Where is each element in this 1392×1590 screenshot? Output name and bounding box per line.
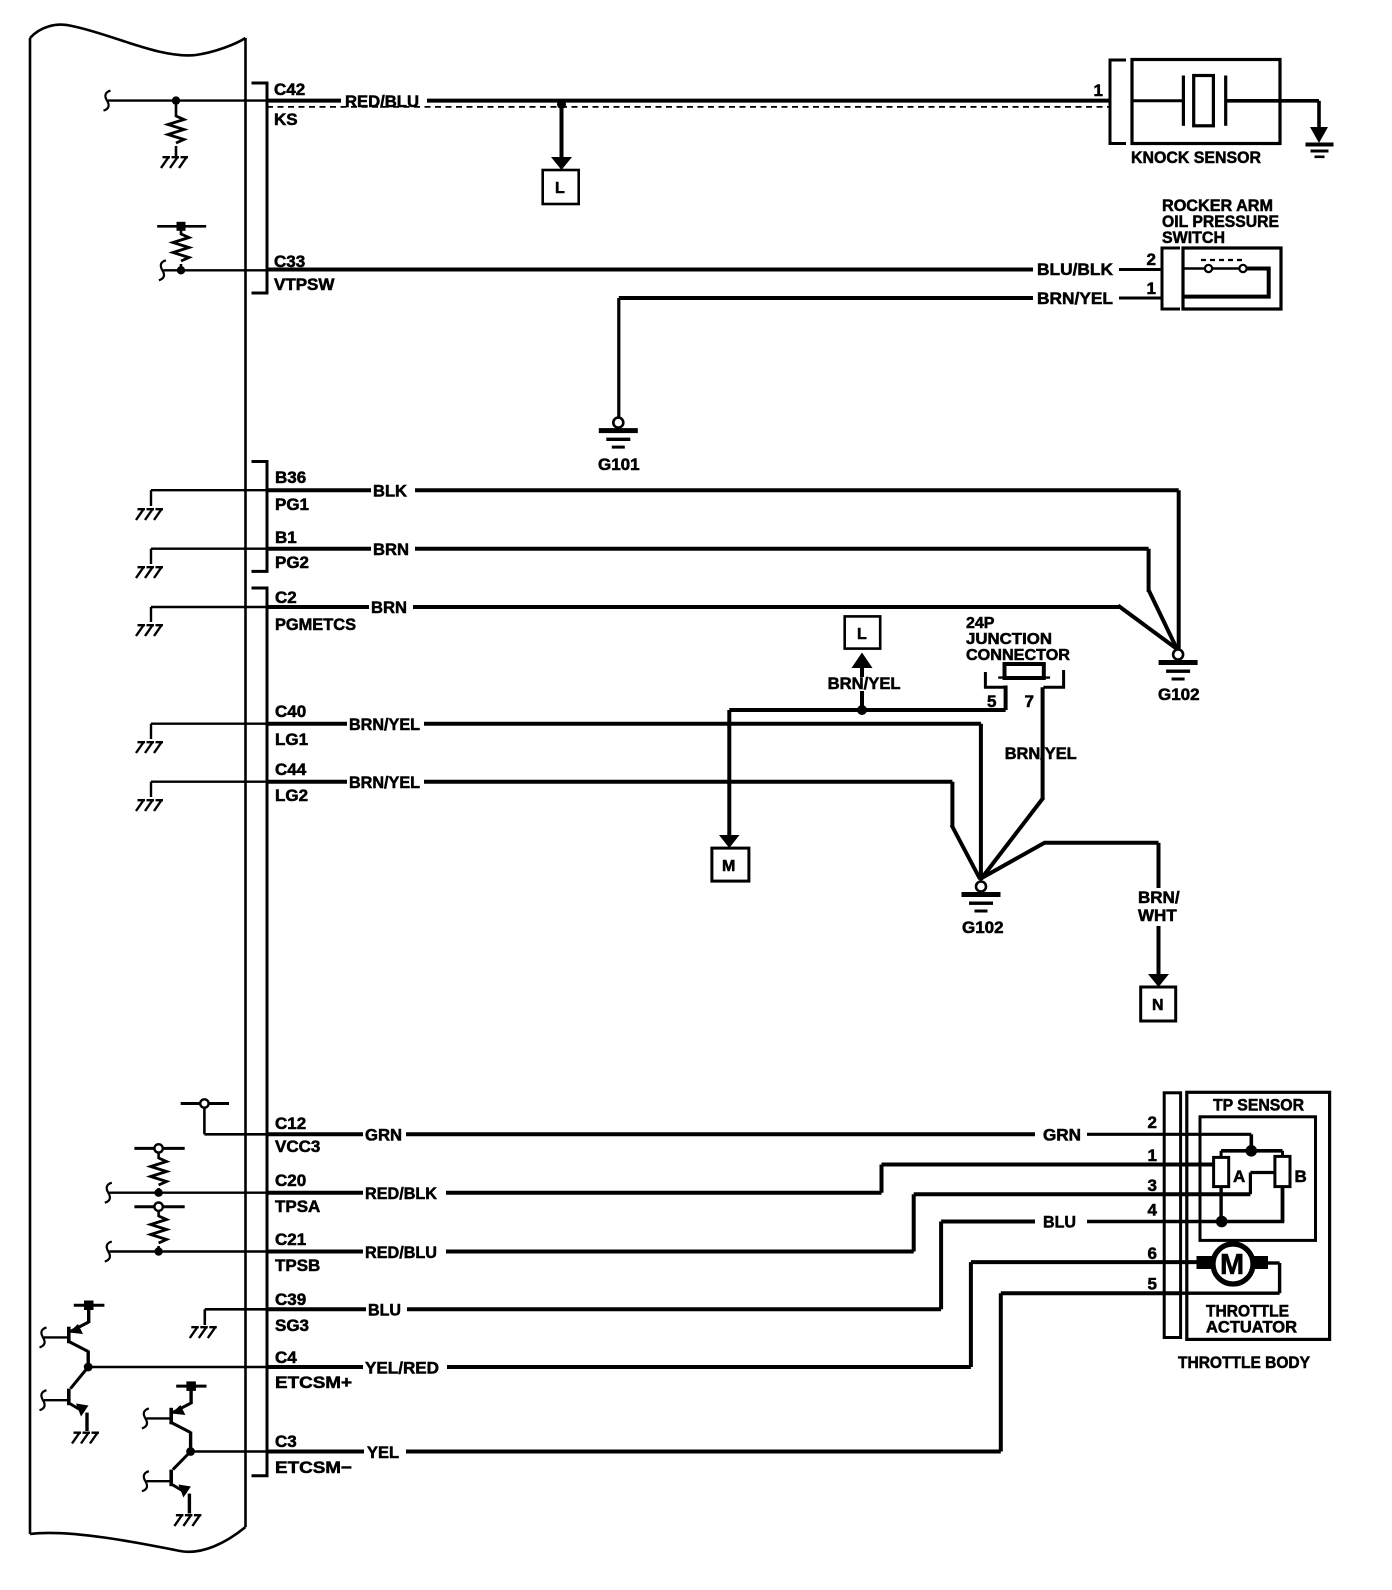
svg-text:L: L [857,626,867,643]
svg-text:LG1: LG1 [275,730,308,749]
svg-text:BRN/YEL: BRN/YEL [828,674,901,693]
svg-text:SWITCH: SWITCH [1162,228,1225,247]
svg-text:2: 2 [1147,250,1156,269]
svg-text:GRN: GRN [365,1126,402,1145]
svg-text:BRN: BRN [371,598,407,617]
svg-text:2: 2 [1148,1113,1157,1132]
svg-text:ETCSM−: ETCSM− [275,1458,352,1477]
svg-text:B1: B1 [275,528,297,547]
svg-text:BRN/YEL: BRN/YEL [349,715,420,734]
svg-text:CONNECTOR: CONNECTOR [966,647,1070,664]
svg-text:4: 4 [1148,1201,1158,1220]
svg-text:G102: G102 [962,918,1004,937]
svg-text:VTPSW: VTPSW [274,275,335,294]
svg-text:RED/BLU: RED/BLU [365,1243,437,1262]
svg-text:C39: C39 [275,1290,306,1309]
svg-text:B: B [1295,1167,1307,1186]
svg-text:YEL: YEL [367,1443,399,1462]
svg-text:RED/BLK: RED/BLK [365,1184,438,1203]
svg-text:C4: C4 [275,1348,297,1367]
svg-text:G101: G101 [598,455,640,474]
svg-text:TPSB: TPSB [275,1256,320,1275]
svg-text:1: 1 [1094,81,1103,100]
svg-text:3: 3 [1148,1176,1157,1195]
svg-text:C21: C21 [275,1230,306,1249]
svg-text:KNOCK SENSOR: KNOCK SENSOR [1131,148,1261,167]
svg-text:G102: G102 [1158,685,1200,704]
svg-text:BRN: BRN [373,540,409,559]
svg-text:24P: 24P [966,615,995,632]
svg-text:A: A [1233,1167,1245,1186]
svg-text:7: 7 [1025,692,1034,711]
svg-text:TPSA: TPSA [275,1197,320,1216]
svg-text:C20: C20 [275,1171,306,1190]
svg-text:L: L [555,180,565,197]
svg-text:C42: C42 [274,80,305,99]
svg-text:N: N [1152,997,1164,1014]
svg-text:M: M [722,858,735,875]
svg-text:ACTUATOR: ACTUATOR [1206,1318,1297,1337]
svg-text:C44: C44 [275,760,307,779]
svg-text:5: 5 [987,692,996,711]
svg-text:6: 6 [1148,1244,1157,1263]
svg-text:C3: C3 [275,1432,297,1451]
svg-text:TP SENSOR: TP SENSOR [1213,1096,1304,1115]
svg-text:GRN: GRN [1043,1126,1081,1145]
svg-text:BLU: BLU [368,1301,401,1320]
svg-text:1: 1 [1148,1146,1157,1165]
svg-text:BRN/: BRN/ [1138,888,1180,907]
svg-text:C2: C2 [275,588,297,607]
svg-text:VCC3: VCC3 [275,1137,320,1156]
svg-text:BLU: BLU [1043,1213,1076,1232]
svg-text:BRN/YEL: BRN/YEL [349,773,420,792]
svg-text:ETCSM+: ETCSM+ [275,1373,352,1392]
svg-text:PG2: PG2 [275,553,309,572]
svg-text:PG1: PG1 [275,495,309,514]
svg-text:M: M [1220,1249,1244,1281]
svg-text:BRN/YEL: BRN/YEL [1037,289,1113,308]
svg-text:RED/BLU: RED/BLU [345,92,419,111]
svg-text:BLU/BLK: BLU/BLK [1037,260,1114,279]
svg-text:BRN/YEL: BRN/YEL [1005,744,1077,763]
svg-text:5: 5 [1148,1275,1157,1294]
svg-text:THROTTLE BODY: THROTTLE BODY [1178,1353,1311,1372]
svg-text:JUNCTION: JUNCTION [966,631,1052,648]
svg-text:YEL/RED: YEL/RED [365,1359,439,1378]
svg-text:B36: B36 [275,468,306,487]
svg-text:PGMETCS: PGMETCS [275,615,356,634]
svg-text:1: 1 [1147,279,1156,298]
svg-text:BLK: BLK [373,482,408,501]
svg-text:C40: C40 [275,702,306,721]
svg-text:SG3: SG3 [275,1316,309,1335]
svg-text:LG2: LG2 [275,786,308,805]
svg-text:KS: KS [274,110,298,129]
svg-text:WHT: WHT [1138,906,1177,925]
svg-text:C12: C12 [275,1114,306,1133]
